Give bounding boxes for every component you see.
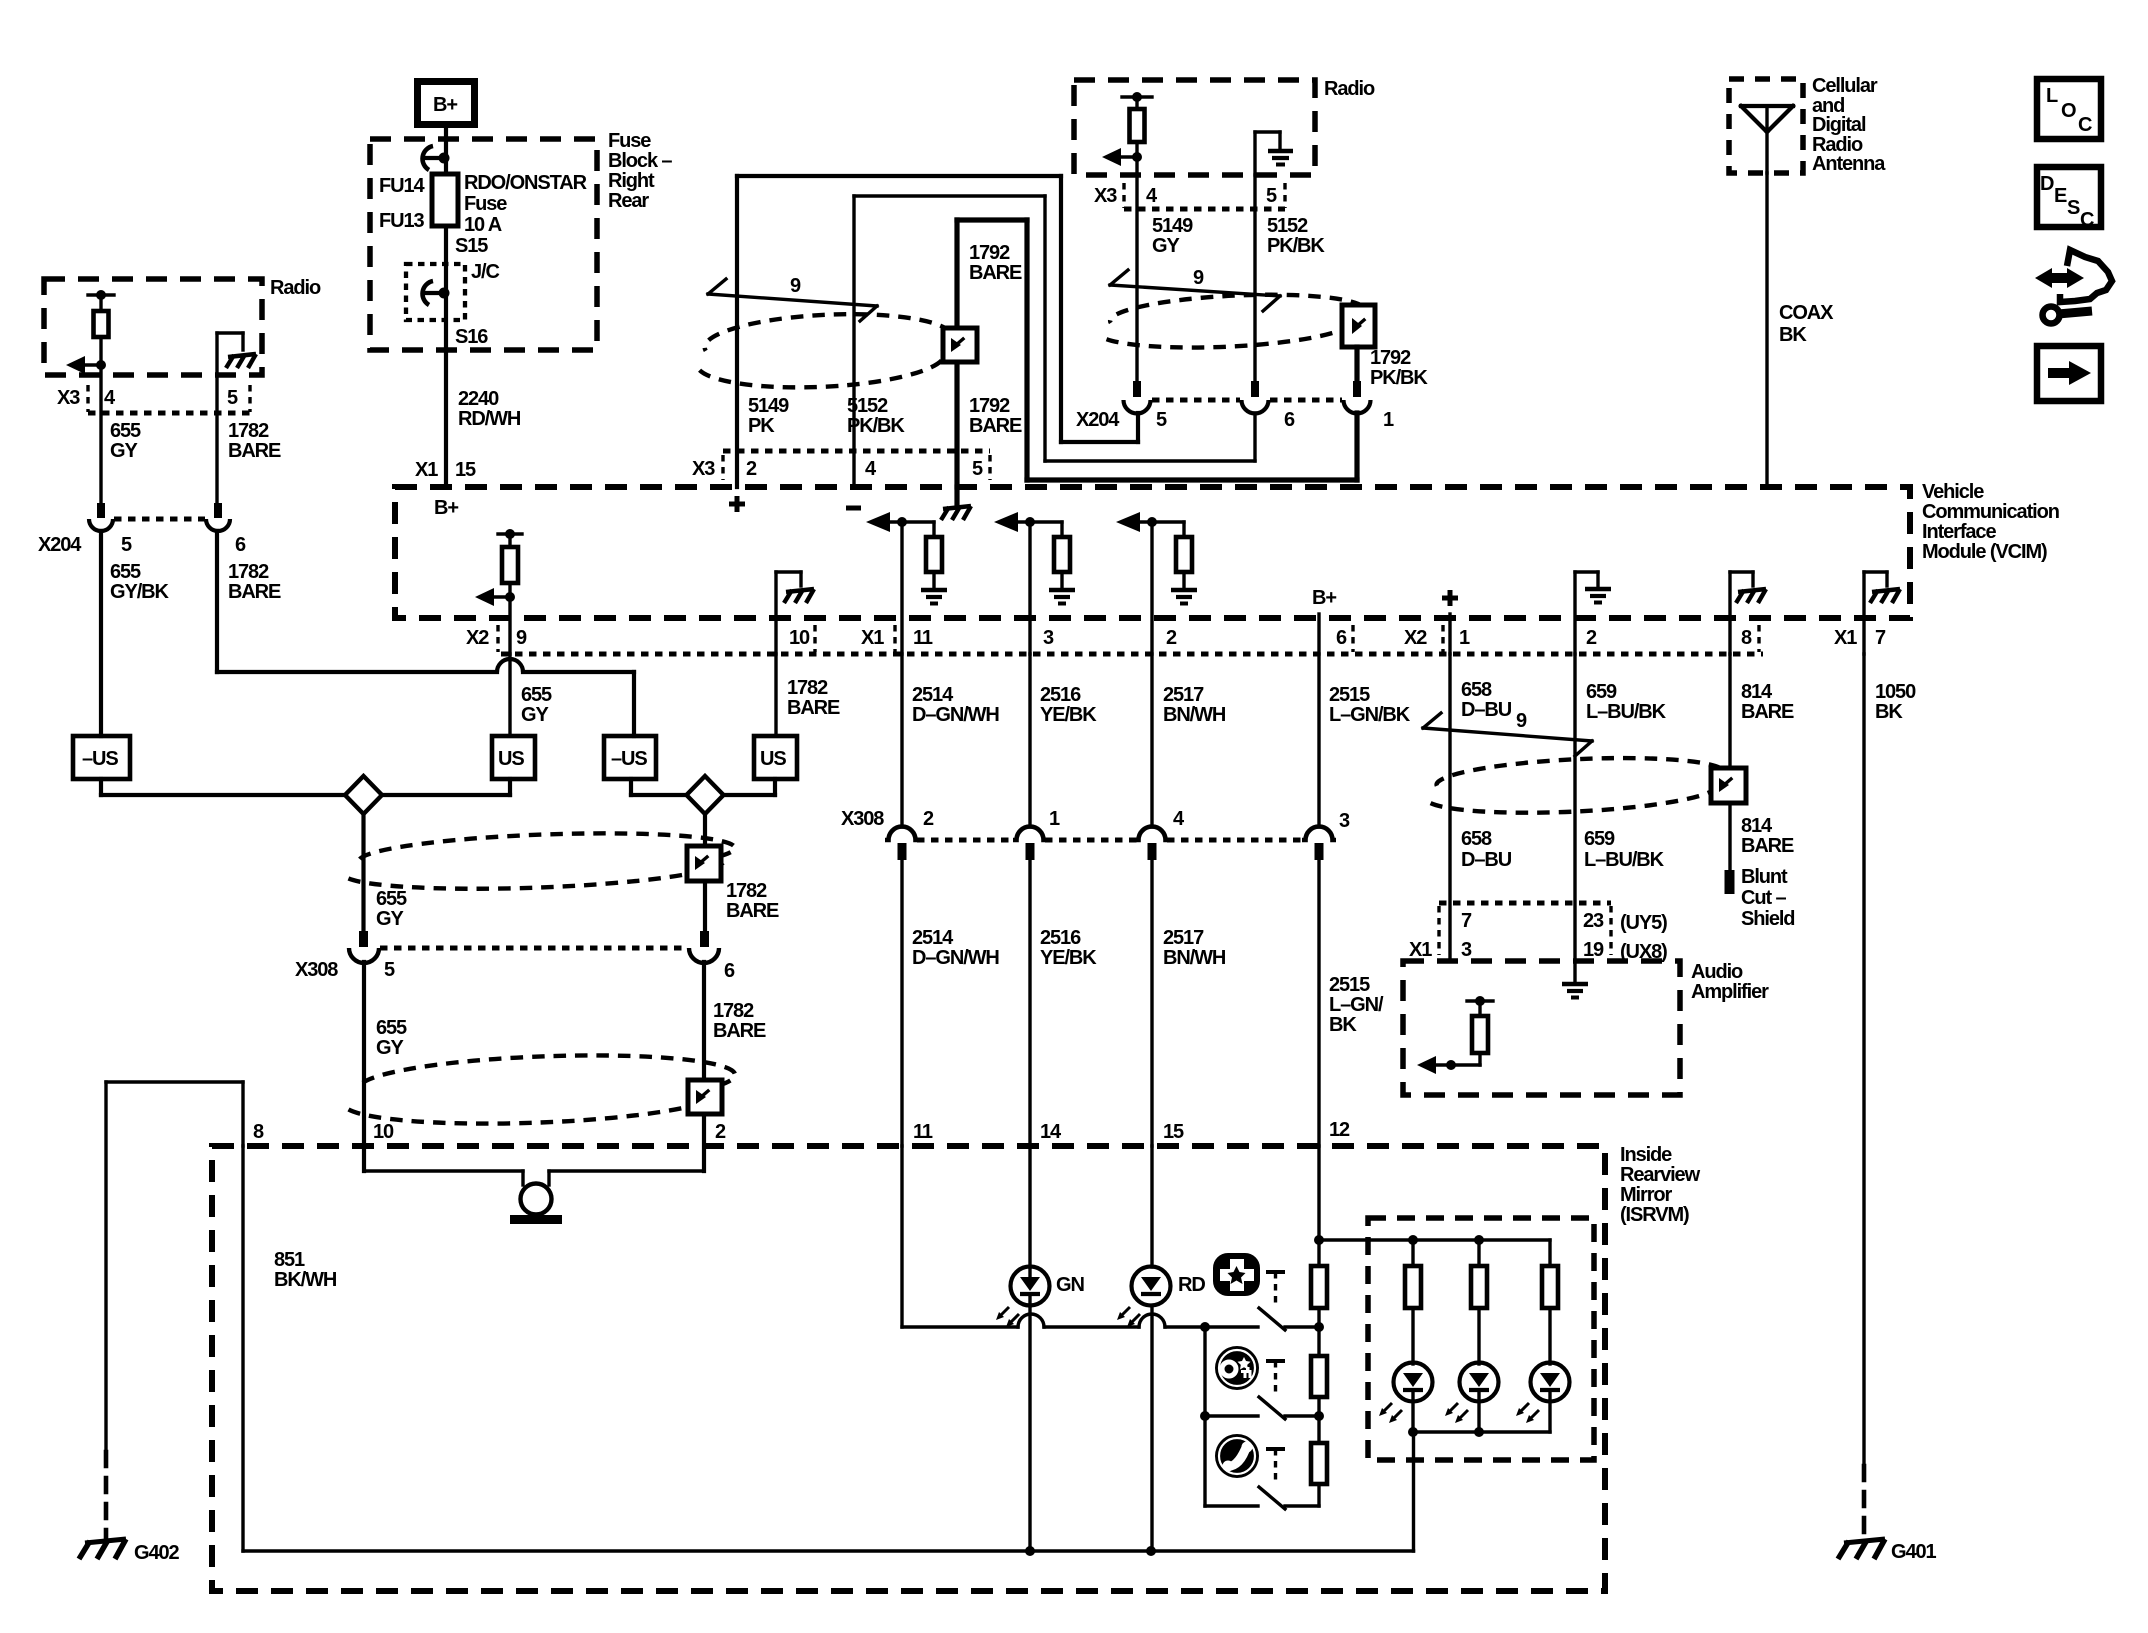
Inside Rearview Mirror (ISRVM) dashed box (212, 1144, 1701, 1591)
svg-text:2515: 2515 (1329, 974, 1370, 996)
connector X1 (audio amplifier) (1409, 903, 1667, 963)
OnStar button icon (1215, 1346, 1259, 1390)
svg-text:655: 655 (376, 1017, 407, 1039)
svg-text:Right: Right (608, 170, 655, 192)
LED branch resistor 2 (1471, 1240, 1487, 1364)
svg-text:655: 655 (110, 420, 141, 442)
resistor chain R3 (1311, 1443, 1327, 1506)
chassis ground at X1-7 inside VCIM (1864, 572, 1900, 654)
Cellular and Digital Radio Antenna dashed box (1729, 75, 1886, 175)
splice box -US (middle) (604, 736, 656, 779)
svg-text:GY: GY (521, 704, 549, 726)
svg-text:D: D (2040, 173, 2054, 195)
wire US to diamond splice 1 (382, 779, 510, 795)
svg-text:X2: X2 (466, 627, 489, 649)
arrow out of top Radio resistor (1102, 148, 1142, 166)
node + at X2-1 (1442, 590, 1458, 654)
LED cluster top bus (1319, 1235, 1550, 1245)
splice box -US (left) (73, 736, 130, 779)
svg-text:2516: 2516 (1040, 684, 1081, 706)
svg-text:1782: 1782 (787, 677, 828, 699)
svg-text:L–BU/BK: L–BU/BK (1586, 701, 1667, 723)
svg-text:Vehicle: Vehicle (1922, 481, 1984, 503)
shield ellipse (655/1782 upper) (347, 828, 736, 894)
svg-text:–US: –US (82, 748, 118, 770)
wire 851 BK/WH (ISRVM pin 8 up and over) (106, 1082, 337, 1449)
svg-text:GY: GY (376, 908, 404, 930)
wire 5152 PK/BK routing (VCIM X3-4 up over to X204-6) (847, 196, 1255, 487)
wire 2515 (X308 to ISRVM pin 12) (1319, 860, 1384, 1146)
VCIM dashed box (395, 481, 2059, 618)
connector X3 (top radio) (1094, 183, 1285, 209)
wire 1782 BARE (VCIM X2-10 to US) (776, 654, 840, 736)
svg-text:X3: X3 (1094, 185, 1117, 207)
svg-text:9: 9 (1193, 267, 1204, 289)
node B+ at X1-6 (1312, 587, 1336, 654)
pin labels 11 14 15 12 (ISRVM) (913, 1119, 1350, 1143)
arrow out of amp junction (1417, 1056, 1456, 1074)
svg-text:3: 3 (1339, 810, 1350, 832)
svg-text:E: E (2054, 185, 2067, 207)
wire 2514 D-GN/WH (VCIM X1-11 to X308) (902, 654, 999, 827)
svg-text:BK/WH: BK/WH (274, 1269, 337, 1291)
svg-text:1782: 1782 (228, 561, 269, 583)
svg-text:5149: 5149 (1152, 215, 1193, 237)
chassis ground at X3-5 inside VCIM (941, 487, 971, 520)
svg-text:B+: B+ (433, 94, 457, 116)
arrow-resistor-ground module at X1-11 (866, 512, 947, 654)
svg-text:5152: 5152 (847, 395, 888, 417)
svg-text:GY: GY (376, 1037, 404, 1059)
svg-text:1792: 1792 (969, 395, 1010, 417)
svg-text:GY/BK: GY/BK (110, 581, 169, 603)
wire fuse to S16 (446, 226, 488, 350)
DESC legend box (2037, 167, 2101, 231)
svg-text:11: 11 (913, 1121, 933, 1143)
svg-text:D–BU: D–BU (1461, 699, 1512, 721)
svg-text:1792: 1792 (1370, 347, 1411, 369)
svg-text:BARE: BARE (969, 262, 1022, 284)
B+ power terminal box (418, 82, 475, 125)
svg-text:1782: 1782 (713, 1000, 754, 1022)
wire 2515 L-GN/BK (VCIM X1-6 to X308) (1319, 654, 1411, 827)
wire 2517 (X308 to ISRVM pin 15) (1152, 860, 1226, 1146)
wire 659 L-BU/BK (VCIM X2-2 to amp ground) (1575, 654, 1667, 982)
svg-text:15: 15 (1163, 1121, 1184, 1143)
wire 2516 YE/BK (VCIM X1-3 to X308) (1030, 654, 1097, 827)
wire 1782 BARE (X308 to ISRVM) (704, 962, 766, 1171)
svg-text:Radio: Radio (270, 277, 321, 299)
wire 1792 PK/BK (shield box to X204-1) (1357, 347, 1428, 389)
ISRVM internal ground bus (243, 1546, 1414, 1556)
svg-text:5149: 5149 (748, 395, 789, 417)
svg-text:C: C (2078, 114, 2092, 136)
svg-text:10: 10 (373, 1121, 394, 1143)
phone button icon (1215, 1434, 1259, 1478)
svg-text:B+: B+ (1312, 587, 1336, 609)
svg-text:Inside: Inside (1620, 1144, 1672, 1166)
wire 1782 BARE (radio to X204) (217, 375, 281, 503)
ground G401 (1838, 1539, 1937, 1563)
connector X3 (left radio) (57, 385, 250, 413)
svg-text:BARE: BARE (713, 1020, 766, 1042)
svg-text:3: 3 (1461, 939, 1472, 961)
LED 1 (mirror) (1379, 1363, 1433, 1433)
twisted pair marker 9 (fuse side) (708, 275, 877, 321)
svg-text:US: US (760, 748, 786, 770)
svg-text:659: 659 (1586, 681, 1617, 703)
Radio (left) dashed box (44, 277, 321, 375)
wire B+ into fuse block (444, 125, 448, 174)
twisted pair marker 9 (top radio) (1110, 267, 1280, 311)
svg-text:2: 2 (715, 1121, 726, 1143)
svg-text:D–GN/WH: D–GN/WH (912, 704, 999, 726)
svg-text:2240: 2240 (458, 388, 499, 410)
svg-text:9: 9 (790, 275, 801, 297)
terminal S-hook at fuse top (423, 146, 450, 170)
shield termination box (top radio) (1342, 305, 1375, 347)
svg-text:5: 5 (972, 458, 983, 480)
svg-text:J/C: J/C (471, 261, 499, 283)
svg-text:658: 658 (1461, 828, 1492, 850)
svg-text:Rearview: Rearview (1620, 1164, 1701, 1186)
svg-text:1782: 1782 (726, 880, 767, 902)
svg-text:(UY5): (UY5) (1620, 912, 1667, 934)
svg-text:FU14: FU14 (379, 175, 425, 197)
svg-text:BN/WH: BN/WH (1163, 704, 1226, 726)
svg-text:659: 659 (1584, 828, 1615, 850)
svg-text:G401: G401 (1891, 1541, 1937, 1563)
antenna symbol (1741, 106, 1793, 173)
svg-text:851: 851 (274, 1249, 305, 1271)
node + (X3-2) (729, 502, 745, 507)
Audio Amplifier dashed box (1403, 961, 1769, 1095)
svg-text:6: 6 (235, 534, 246, 556)
svg-text:1792: 1792 (969, 242, 1010, 264)
shield termination box (814) (1711, 768, 1746, 803)
svg-text:655: 655 (110, 561, 141, 583)
svg-text:BK: BK (1329, 1014, 1357, 1036)
ground symbol inside left Radio (chassis) (217, 333, 256, 375)
svg-text:GY: GY (110, 440, 138, 462)
svg-text:Digital: Digital (1812, 114, 1866, 136)
wire pin 11 to switch bus (902, 1146, 1258, 1327)
svg-text:2517: 2517 (1163, 927, 1204, 949)
svg-text:2515: 2515 (1329, 684, 1370, 706)
svg-text:8: 8 (1741, 627, 1752, 649)
shield ellipse (top radio pair) (1105, 290, 1366, 352)
svg-text:US: US (498, 748, 524, 770)
blunt cut shield stub (1725, 866, 1795, 930)
LED GN indicator (996, 1146, 1084, 1551)
svg-text:8: 8 (253, 1121, 264, 1143)
shield termination box (655/1782 upper) (687, 846, 721, 881)
svg-text:655: 655 (376, 888, 407, 910)
wire 655 GY (VCIM X2-9 to US) (510, 654, 552, 736)
svg-text:X308: X308 (295, 959, 338, 981)
svg-text:658: 658 (1461, 679, 1492, 701)
svg-text:Fuse: Fuse (608, 130, 651, 152)
LOC legend box (2037, 79, 2101, 139)
wire 655 GY (diamond1 to X308) (364, 814, 408, 931)
svg-text:Radio: Radio (1324, 78, 1375, 100)
svg-text:Cellular: Cellular (1812, 75, 1878, 97)
svg-text:X1: X1 (1834, 627, 1857, 649)
wire 814 BARE to blunt cut (1730, 803, 1794, 874)
svg-text:BARE: BARE (787, 697, 840, 719)
svg-text:1: 1 (1459, 627, 1470, 649)
svg-text:7: 7 (1461, 910, 1472, 932)
svg-text:Blunt: Blunt (1741, 866, 1788, 888)
svg-text:1: 1 (1383, 409, 1394, 431)
svg-text:5152: 5152 (1267, 215, 1308, 237)
svg-text:814: 814 (1741, 815, 1773, 837)
svg-text:5: 5 (227, 387, 238, 409)
wire 1050 dashed tail to G401 (1862, 1466, 1867, 1538)
svg-text:C: C (2080, 209, 2094, 231)
wire 5149 PK routing (VCIM X3-2 up over to X204-5) (737, 176, 1138, 487)
wire 851 dashed tail to G402 (104, 1452, 109, 1538)
svg-text:X204: X204 (38, 534, 82, 556)
fuse FU14/FU13 RDO/ONSTAR 10A (379, 172, 588, 236)
svg-text:FU13: FU13 (379, 210, 424, 232)
resistor module inside amp (1451, 996, 1493, 1065)
svg-text:6: 6 (1336, 627, 1347, 649)
svg-text:Antenna: Antenna (1812, 153, 1886, 175)
svg-text:GN: GN (1056, 1274, 1084, 1296)
Radio (top) dashed box (1074, 78, 1375, 175)
switch 3 (phone) (1205, 1416, 1319, 1509)
microphone symbol (510, 1184, 562, 1225)
svg-text:655: 655 (521, 684, 552, 706)
wire 5149 GY (radio X3-4 to X204-5) (1137, 157, 1193, 381)
emergency button icon (1214, 1254, 1259, 1295)
arrow out of left Radio resistor (66, 356, 106, 374)
svg-text:23: 23 (1583, 910, 1604, 932)
LED RD indicator (1117, 1146, 1205, 1551)
resistor module at X2-9 inside VCIM (475, 529, 522, 654)
svg-text:9: 9 (516, 627, 527, 649)
svg-text:5: 5 (1266, 185, 1277, 207)
svg-text:3: 3 (1043, 627, 1054, 649)
wire 655 GY (X308 to ISRVM) (364, 962, 407, 1171)
svg-text:Interface: Interface (1922, 521, 1996, 543)
resistor chain R2 (1311, 1356, 1327, 1443)
ground G402 (79, 1539, 180, 1564)
svg-text:D–BU: D–BU (1461, 849, 1512, 871)
arrow-resistor-ground module at X1-2 (1116, 512, 1197, 654)
svg-text:X1: X1 (861, 627, 884, 649)
connector X204 (top) (1076, 381, 1394, 431)
svg-text:Rear: Rear (608, 190, 649, 212)
connector X308 (left pins 5,6) (295, 931, 735, 982)
connector X3 at VCIM top (692, 451, 990, 480)
svg-text:BARE: BARE (1741, 835, 1794, 857)
svg-text:PK/BK: PK/BK (1370, 367, 1428, 389)
LED cluster bottom bus (1408, 1427, 1550, 1551)
wire 1792 BARE routing (VCIM X3-5 up over to X204-1) (957, 220, 1357, 487)
shield ellipse (658/659) (1429, 753, 1726, 818)
svg-text:2: 2 (1166, 627, 1177, 649)
switch 1 (emergency) (1200, 1272, 1324, 1332)
connector X204 (left) (38, 503, 246, 556)
svg-text:–US: –US (611, 748, 647, 770)
svg-text:2514: 2514 (912, 927, 954, 949)
svg-text:14: 14 (1040, 1121, 1062, 1143)
LED branch resistor 1 (1405, 1240, 1421, 1364)
arrow-resistor-ground module at X1-3 (994, 512, 1075, 654)
svg-text:2517: 2517 (1163, 684, 1204, 706)
wire 2515 feed to resistor chain (1314, 1146, 1324, 1266)
svg-text:L: L (2046, 85, 2058, 107)
svg-text:BARE: BARE (228, 440, 281, 462)
svg-text:X3: X3 (57, 387, 80, 409)
resistor inside left Radio with terminal bar (88, 290, 114, 365)
svg-text:YE/BK: YE/BK (1040, 704, 1097, 726)
svg-text:G402: G402 (134, 1542, 180, 1564)
svg-text:RD/WH: RD/WH (458, 408, 521, 430)
svg-text:PK/BK: PK/BK (1267, 235, 1325, 257)
switch 2 (OnStar) (1200, 1327, 1324, 1421)
LED cluster dashed box (1368, 1218, 1594, 1460)
diamond splice 1 (345, 776, 382, 814)
svg-text:X2: X2 (1404, 627, 1427, 649)
splice box US (x2-9 side) (492, 736, 535, 779)
wire 1782 BARE (X204 pin6 down and right) (217, 531, 634, 736)
svg-text:L–GN/: L–GN/ (1329, 994, 1384, 1016)
svg-text:BARE: BARE (726, 900, 779, 922)
splice box US (x2-10 side) (754, 736, 797, 779)
wire US to diamond splice 2 (723, 779, 775, 795)
svg-text:L–BU/BK: L–BU/BK (1584, 849, 1665, 871)
svg-text:1050: 1050 (1875, 681, 1916, 703)
svg-text:1: 1 (1049, 808, 1060, 830)
svg-text:(ISRVM): (ISRVM) (1620, 1204, 1689, 1226)
svg-text:BN/WH: BN/WH (1163, 947, 1226, 969)
svg-text:15: 15 (455, 459, 476, 481)
svg-text:RD: RD (1178, 1274, 1205, 1296)
svg-text:5: 5 (1156, 409, 1167, 431)
svg-text:7: 7 (1875, 627, 1886, 649)
svg-text:2516: 2516 (1040, 927, 1081, 949)
svg-text:L–GN/BK: L–GN/BK (1329, 704, 1411, 726)
earth ground (659 inside amp) (1562, 984, 1588, 998)
wire 655 GY/BK (X204 to -US) (101, 531, 169, 736)
node - (X3-4) (846, 506, 861, 511)
svg-text:Communication: Communication (1922, 501, 2059, 523)
wire 655 GY (radio to X204) (101, 365, 141, 503)
svg-text:O: O (2061, 100, 2076, 122)
svg-text:Block –: Block – (608, 150, 672, 172)
shield termination box (fuse side) (943, 328, 977, 362)
microphone bus inside ISRVM (364, 1171, 704, 1185)
resistor inside top Radio with terminal bar (1122, 92, 1152, 157)
svg-text:5: 5 (384, 959, 395, 981)
wire 2516 (X308 to ISRVM pin 14) (1030, 860, 1097, 1146)
svg-text:19: 19 (1583, 939, 1604, 961)
svg-text:2: 2 (746, 458, 757, 480)
svg-text:S: S (2067, 197, 2080, 219)
LED 2 (mirror) (1445, 1363, 1499, 1433)
svg-text:X1: X1 (1409, 939, 1432, 961)
svg-text:Module (VCIM): Module (VCIM) (1922, 541, 2047, 563)
twisted pair marker 9 (658/659) (1423, 710, 1592, 756)
shield ellipse (fuse side pair) (697, 309, 954, 392)
earth ground inside top Radio (1255, 132, 1293, 175)
svg-text:BARE: BARE (1741, 701, 1794, 723)
Fuse Block - Right Rear dashed box (370, 130, 672, 350)
svg-text:Fuse: Fuse (464, 193, 507, 215)
wire -US to diamond splice 1 (101, 779, 345, 795)
svg-text:COAX: COAX (1779, 302, 1834, 324)
shield ellipse (655/1782 lower) (347, 1050, 737, 1130)
svg-text:BARE: BARE (228, 581, 281, 603)
svg-text:2514: 2514 (912, 684, 954, 706)
svg-text:814: 814 (1741, 681, 1773, 703)
svg-text:Audio: Audio (1691, 961, 1743, 983)
diamond splice 2 (687, 776, 724, 814)
svg-text:PK: PK (748, 415, 775, 437)
wire 2240 RD/WH to VCIM X1-15 (415, 350, 521, 487)
svg-text:6: 6 (1284, 409, 1295, 431)
wire 1782 BARE (diamond2 to X308) (705, 814, 779, 931)
svg-text:PK/BK: PK/BK (847, 415, 905, 437)
chassis ground at X2-10 inside VCIM (776, 572, 814, 654)
svg-text:10: 10 (789, 627, 810, 649)
wire -US to diamond splice 2 (631, 779, 686, 795)
svg-text:9: 9 (1516, 710, 1527, 732)
svg-text:6: 6 (724, 960, 735, 982)
shield termination box (655/1782 lower) (688, 1080, 722, 1114)
svg-text:12: 12 (1329, 1119, 1350, 1141)
J/C junction box (406, 261, 499, 348)
svg-text:X3: X3 (692, 458, 715, 480)
svg-text:S16: S16 (455, 326, 488, 348)
resistor chain R1 (1311, 1266, 1327, 1356)
wire 658 D-BU (VCIM X2-1 to amp) (1450, 654, 1512, 961)
wire COAX BK to VCIM (1767, 173, 1834, 487)
svg-text:1782: 1782 (228, 420, 269, 442)
svg-text:X308: X308 (841, 808, 884, 830)
wire 5152 PK/BK (radio X3-5 to X204-6) (1255, 175, 1325, 381)
connector X308 (right pins 2,1,4,3) (841, 808, 1350, 860)
svg-text:11: 11 (913, 627, 933, 649)
svg-text:GY: GY (1152, 235, 1180, 257)
svg-text:X1: X1 (415, 459, 438, 481)
svg-text:B+: B+ (434, 497, 458, 519)
svg-text:X204: X204 (1076, 409, 1120, 431)
wire 1050 BK (VCIM X1-7 to G401) (1864, 654, 1916, 1466)
LED 3 (mirror) (1516, 1363, 1570, 1433)
earth ground at X2-2 inside VCIM (1575, 572, 1611, 654)
svg-text:BK: BK (1875, 701, 1903, 723)
svg-text:Amplifier: Amplifier (1691, 981, 1769, 1003)
wire 2517 BN/WH (VCIM X1-2 to X308) (1152, 654, 1226, 827)
svg-text:2: 2 (923, 808, 934, 830)
wire 2514 (X308 to ISRVM pin 11) (902, 860, 999, 1146)
svg-text:2: 2 (1586, 627, 1597, 649)
forward arrow legend box (2037, 346, 2101, 401)
svg-text:S15: S15 (455, 235, 488, 257)
svg-text:Shield: Shield (1741, 908, 1794, 930)
svg-text:Cut –: Cut – (1741, 887, 1786, 909)
svg-text:RDO/ONSTAR: RDO/ONSTAR (464, 172, 588, 194)
diagnostic route/wrench icon (2035, 250, 2112, 324)
svg-text:BK: BK (1779, 324, 1807, 346)
svg-text:Mirror: Mirror (1620, 1184, 1673, 1206)
VCIM bottom connector row (466, 625, 1886, 654)
svg-text:BARE: BARE (969, 415, 1022, 437)
